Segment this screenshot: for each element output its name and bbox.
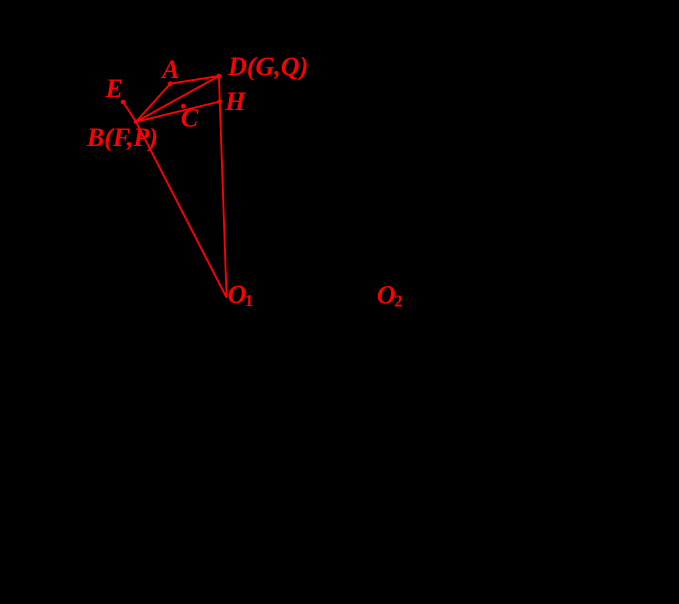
- svg-text:A: A: [160, 55, 179, 84]
- svg-text:C: C: [181, 104, 199, 133]
- point E: [121, 100, 126, 105]
- point H: [218, 99, 223, 104]
- wire E-B: [123, 102, 136, 122]
- wire B-H: [136, 102, 220, 122]
- wire B-A: [136, 84, 170, 122]
- svg-text:B(F,P): B(F,P): [86, 123, 158, 152]
- wire B-D diagonal: [136, 76, 219, 122]
- svg-text:H: H: [224, 87, 246, 116]
- svg-text:E: E: [105, 74, 123, 103]
- point B: [134, 120, 139, 125]
- wire D-O1 through H: [219, 76, 227, 298]
- point D: [217, 74, 222, 79]
- point C: [181, 104, 186, 109]
- wire A-D: [170, 76, 219, 84]
- point A: [168, 81, 173, 86]
- svg-text:D(G,Q): D(G,Q): [227, 52, 308, 81]
- wire B-O1: [136, 122, 227, 298]
